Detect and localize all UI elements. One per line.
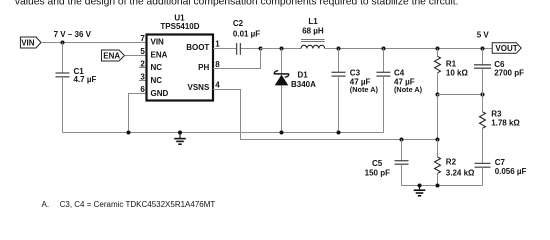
svg-text:10 kΩ: 10 kΩ	[446, 69, 469, 78]
svg-text:(Note A): (Note A)	[350, 85, 379, 94]
svg-text:VIN: VIN	[21, 39, 35, 48]
junction R1 top	[436, 47, 440, 51]
bottom compensation rail	[402, 185, 483, 187]
capacitor C7	[475, 158, 527, 185]
junction ground symbol	[178, 131, 182, 135]
svg-text:ENA: ENA	[151, 50, 168, 59]
wire C2 to PH node	[241, 48, 261, 50]
wire NC pin 2 stub	[139, 67, 147, 69]
svg-text:68 µH: 68 µH	[302, 27, 324, 36]
svg-text:PH: PH	[198, 63, 209, 72]
junction 5V C6 top	[481, 47, 485, 51]
svg-text:VOUT: VOUT	[495, 44, 517, 53]
wire PH node to inductor	[261, 48, 302, 50]
svg-text:1.78 kΩ: 1.78 kΩ	[491, 119, 520, 128]
capacitor C5	[365, 140, 409, 186]
svg-text:C2: C2	[233, 19, 244, 28]
wire VIN to pin 7	[41, 42, 147, 44]
connector VOUT	[492, 43, 521, 54]
svg-text:5: 5	[140, 47, 145, 56]
junction C1 top	[61, 41, 65, 45]
connector ENA	[102, 50, 125, 61]
svg-text:1: 1	[215, 40, 220, 49]
svg-text:0.01 µF: 0.01 µF	[233, 30, 260, 39]
junction D1	[280, 47, 284, 51]
IC U1 TPS5410D	[147, 13, 214, 100]
svg-text:0.056 µF: 0.056 µF	[495, 167, 527, 176]
junction ground 2	[418, 184, 422, 188]
svg-text:values and the design of the a: values and the design of the additional …	[15, 0, 459, 7]
capacitor C1	[56, 67, 97, 84]
svg-text:TPS5410D: TPS5410D	[160, 22, 199, 31]
inductor L1	[301, 17, 325, 49]
svg-text:4: 4	[215, 81, 220, 90]
wire GND pin 6	[129, 94, 147, 133]
capacitor C6	[474, 49, 524, 95]
svg-text:NC: NC	[151, 76, 163, 85]
wire C1 top lead	[62, 43, 64, 74]
svg-text:R1: R1	[446, 60, 457, 69]
capacitor C2	[233, 19, 260, 55]
svg-text:R3: R3	[491, 110, 502, 119]
svg-text:VIN: VIN	[151, 38, 165, 47]
svg-text:6: 6	[140, 85, 145, 94]
wire PH lead	[213, 49, 261, 69]
connector VIN	[20, 37, 41, 48]
junction R2 bottom	[436, 184, 440, 188]
ground rail	[63, 132, 384, 134]
svg-text:8: 8	[215, 60, 220, 69]
junction C3 bottom	[337, 131, 341, 135]
svg-text:C3: C3	[350, 69, 361, 78]
svg-text:D1: D1	[298, 71, 309, 80]
junction C3 top	[337, 47, 341, 51]
svg-text:3.24 kΩ: 3.24 kΩ	[446, 168, 475, 177]
svg-text:NC: NC	[151, 63, 163, 72]
wire C1 bottom lead	[62, 77, 64, 133]
wire R1 node down to VSNS net	[437, 95, 439, 140]
svg-text:2: 2	[140, 60, 145, 69]
resistor R1	[435, 49, 469, 95]
wire VSNS net	[213, 90, 438, 140]
wire ENA to pin 5	[125, 55, 147, 57]
junction C5 top	[400, 138, 404, 142]
svg-text:150 pF: 150 pF	[365, 168, 390, 177]
capacitor C4	[376, 49, 422, 133]
svg-text:C3, C4 = Ceramic TDKC4532X5R1A: C3, C4 = Ceramic TDKC4532X5R1A476MT	[60, 200, 216, 209]
ground symbol main	[174, 133, 186, 145]
svg-text:BOOT: BOOT	[186, 43, 209, 52]
svg-text:4.7 µF: 4.7 µF	[74, 75, 97, 84]
svg-text:B340A: B340A	[291, 80, 316, 89]
svg-text:GND: GND	[151, 89, 169, 98]
junction C4 top	[382, 47, 386, 51]
svg-text:2700 pF: 2700 pF	[494, 69, 524, 78]
junction C6 bottom R3 top	[481, 93, 485, 97]
svg-text:3: 3	[140, 72, 145, 81]
wire BOOT lead	[213, 48, 236, 50]
svg-text:C7: C7	[495, 158, 506, 167]
junction D1 anode at rail	[280, 131, 284, 135]
svg-text:VSNS: VSNS	[188, 83, 210, 92]
capacitor C3	[332, 49, 379, 133]
wire output rail	[324, 48, 492, 50]
svg-text:(Note A): (Note A)	[394, 85, 423, 94]
junction VSNS R1 R2	[436, 138, 440, 142]
junction R1 bottom node	[436, 93, 440, 97]
svg-text:ENA: ENA	[103, 52, 120, 61]
svg-text:5 V: 5 V	[477, 31, 490, 40]
svg-text:L1: L1	[308, 17, 318, 26]
svg-text:A.: A.	[42, 200, 50, 209]
svg-text:7 V – 36 V: 7 V – 36 V	[54, 30, 92, 39]
junction GND wire	[127, 131, 131, 135]
svg-text:C4: C4	[394, 69, 405, 78]
diode D1 B340A	[274, 49, 316, 133]
svg-text:C5: C5	[372, 159, 383, 168]
ground symbol comp	[414, 186, 426, 196]
resistor R3	[480, 95, 521, 164]
wire NC pin 3 stub	[139, 80, 147, 82]
svg-text:7: 7	[140, 34, 145, 43]
resistor R2	[435, 140, 476, 186]
node line to C6/R3	[438, 94, 483, 96]
junction PH	[259, 47, 263, 51]
svg-text:R2: R2	[446, 157, 457, 166]
